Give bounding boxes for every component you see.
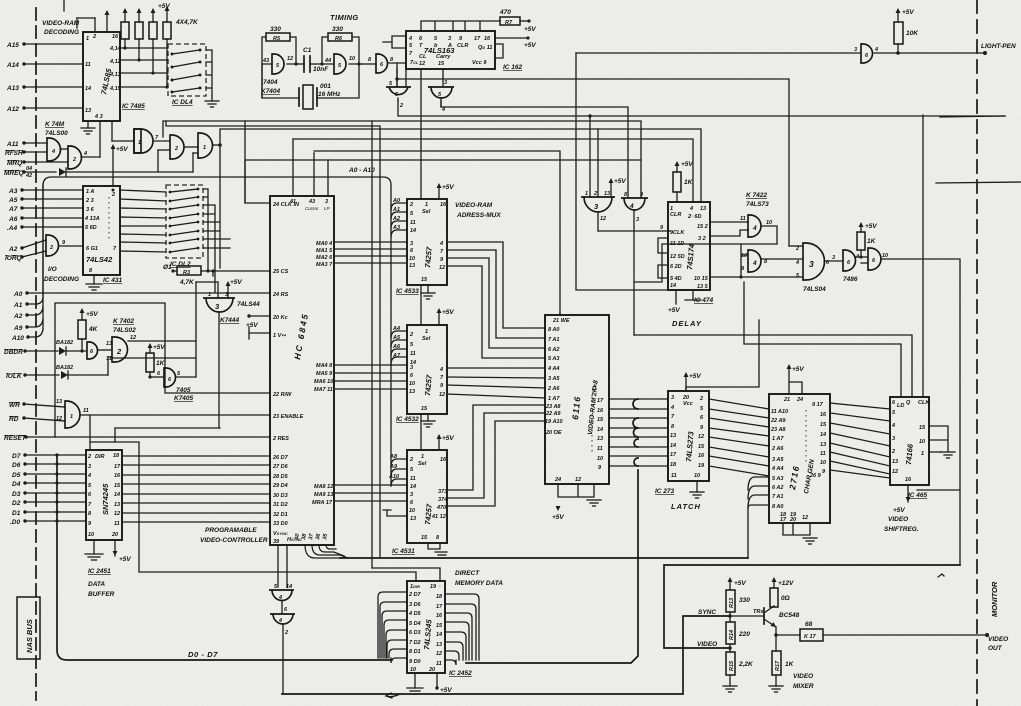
svg-text:14: 14 [85,86,91,92]
svg-text:11 A10: 11 A10 [771,409,788,415]
svg-text:A: A [447,43,452,49]
node RD [9,416,65,423]
svg-text:470: 470 [499,9,511,16]
svg-text:+5V: +5V [86,311,98,318]
ground divider [723,686,737,692]
svg-text:CLK: CLK [918,400,930,406]
svg-text:6 G1: 6 G1 [86,246,98,252]
label video-ram adress-mux [455,202,501,219]
svg-text:7486: 7486 [843,276,858,283]
gate U23a [748,215,772,237]
label data buffer [88,581,115,598]
svg-text:Vcc 9: Vcc 9 [472,60,487,66]
svg-text:24: 24 [796,397,803,403]
svg-text:3 A5: 3 A5 [772,457,784,463]
wire mux3 outputs up to ram [447,405,545,506]
wire dir path [90,415,440,581]
wire U3c out junction [213,143,222,147]
wire shiftreg top pins [634,282,912,397]
svg-text:1K: 1K [867,238,877,245]
counter U5 74LS163 [406,31,495,69]
svg-text:MA9 13: MA9 13 [314,492,333,498]
wire dma right fan to ram bus [445,594,479,665]
svg-text:Carry: Carry [436,54,451,60]
svg-text:2: 2 [111,192,115,198]
gate U11c 7405 [150,368,181,387]
gate U3a nand [134,129,153,153]
label video shiftreg [884,516,919,533]
svg-text:D1: D1 [12,510,21,517]
wire mux1 outputs to ram [447,242,545,358]
svg-text:+5V: +5V [246,322,258,329]
svg-text:4: 4 [439,241,443,247]
svg-text:DECODING: DECODING [44,276,79,283]
svg-text:14: 14 [410,228,416,234]
svg-text:10: 10 [88,532,94,538]
wire shiftreg video wrap [917,489,960,491]
svg-text:74257: 74257 [423,374,434,396]
svg-text:11: 11 [436,661,442,667]
svg-text:C1: C1 [303,47,312,54]
svg-text:SYNC: SYNC [698,609,716,616]
svg-text:40: 40 [294,533,301,541]
node A14 [6,62,83,69]
gate U3c nand [185,133,213,158]
svg-text:4: 4 [87,473,91,479]
svg-text:4: 4 [795,260,799,266]
svg-text:11: 11 [410,476,416,482]
svg-text:+5V: +5V [524,26,536,33]
svg-text:OUT: OUT [988,645,1003,652]
svg-text:2: 2 [87,454,91,460]
wire mux2 outputs to ram [447,368,545,398]
svg-text:4: 4 [629,203,634,210]
capacitor crtc vss [249,327,270,339]
label video mixer [793,673,814,690]
node D0 [10,519,86,526]
wire counter CL down [395,69,421,199]
svg-text:VIDEO-RAM: VIDEO-RAM [42,20,80,27]
svg-text:K 7402: K 7402 [113,318,134,325]
node D1 [12,510,86,517]
buffer U13 SN74245 data buffer [86,450,122,540]
svg-text:3: 3 [854,47,857,53]
svg-text:2: 2 [409,202,413,208]
resistor R15 2,2K [726,652,754,675]
svg-text:VIDEO: VIDEO [988,636,1008,643]
node D6 [12,462,86,469]
svg-text:18: 18 [436,594,443,600]
ram U19 6116 [545,315,609,484]
wire band h129 [220,129,701,268]
svg-text:Q: Q [906,400,911,406]
svg-text:K 17: K 17 [804,634,817,640]
svg-text:3: 3 [410,241,413,247]
label 7405 [174,387,194,402]
svg-text:1: 1 [921,451,924,457]
power +5V rail left [111,144,129,186]
svg-text:21: 21 [783,397,790,403]
wire U25b out right [881,259,960,565]
svg-text:QD 11: QD 11 [478,45,492,51]
resistor R14 220 [726,622,750,644]
svg-text:DATA: DATA [88,581,105,588]
svg-text:12: 12 [114,511,120,517]
mux U17 74LS257 [407,325,447,414]
crystal X1 16MHz [299,83,341,109]
svg-text:13: 13 [410,516,416,522]
buffer U4c [362,54,406,73]
svg-text:A5: A5 [8,197,18,204]
svg-text:04: 04 [26,166,32,172]
label I/O decoding [44,266,79,283]
wire switch outputs bus [203,189,230,292]
power +5V mux2 [437,308,455,325]
svg-text:D4: D4 [12,481,21,488]
wire band h114 [398,101,1005,118]
node A11 [6,141,47,148]
svg-text:10nF: 10nF [313,66,329,73]
svg-text:Sel: Sel [422,336,431,342]
svg-text:+5V: +5V [158,3,170,10]
gate U21b nor [621,192,648,335]
wire delay q4 to gate E [710,275,803,278]
svg-text:2: 2 [409,457,413,463]
svg-text:1 A7: 1 A7 [772,436,784,442]
svg-text:13 5: 13 5 [697,284,709,290]
wire address bus A0-A10 [43,177,391,329]
diode D2 BA182 [56,340,86,355]
svg-text:+5V: +5V [524,42,536,49]
svg-text:BA182: BA182 [56,365,73,371]
svg-text:13: 13 [892,459,898,465]
wire crtc MA8-10 to mux3 [334,485,407,501]
svg-text:24 RS: 24 RS [272,292,289,298]
wire dma left fan from bus [378,592,407,663]
svg-text:2 3: 2 3 [85,198,94,204]
power +5V counter pin16 [495,36,536,49]
svg-text:15: 15 [436,623,443,629]
diode D1 [59,168,193,176]
svg-text:+5V: +5V [865,223,877,230]
svg-text:10: 10 [820,460,826,466]
svg-text:+5V: +5V [153,344,165,351]
svg-text:20: 20 [789,517,796,523]
svg-text:373: 373 [438,489,447,495]
gate U6b nor [428,80,454,113]
inductor L1 68 [800,621,823,641]
wire band verticals gates [372,116,626,568]
power +5V buffer pin20 [113,540,132,563]
svg-text:D5: D5 [12,472,21,479]
svg-text:16: 16 [698,453,705,459]
svg-text:11: 11 [85,62,91,68]
svg-text:2 A6: 2 A6 [771,446,784,452]
wire oscillator loop2 [315,37,362,66]
node RESET [4,435,270,442]
resistor R11 1K delay [673,161,694,202]
svg-text:R3: R3 [183,270,190,276]
svg-text:BUFFER: BUFFER [88,591,115,598]
wire video data bus vertical [633,399,638,466]
svg-text:11: 11 [820,451,826,457]
mux U16 74LS257 [407,199,447,285]
svg-text:7 A1: 7 A1 [548,337,559,343]
svg-text:16: 16 [436,613,443,619]
label D0 - D7 [188,650,218,659]
wire U23b out to U24 [762,258,803,260]
wire crtc clk from left [245,160,270,203]
svg-text:41 12: 41 12 [431,514,446,520]
svg-text:4: 4 [51,149,55,155]
label TIMING [330,13,359,22]
ground decoder pin8 [86,275,102,290]
svg-text:10: 10 [409,256,415,262]
svg-text:+5V: +5V [902,9,914,16]
svg-text:+5V: +5V [116,146,128,153]
svg-text:42: 42 [25,173,32,179]
label DELAY [672,319,702,328]
svg-text:4: 4 [874,47,878,53]
svg-text:3 6: 3 6 [86,207,95,213]
node A2 [8,240,46,253]
bus boundary dashed left [35,8,37,700]
label K7404 [261,79,281,95]
svg-text:11: 11 [410,351,416,357]
ground comparator pin4 [81,121,95,134]
svg-text:15: 15 [114,483,121,489]
node D7 [12,453,86,460]
transistor Q1 BC548 [764,606,800,627]
svg-text:LP: LP [324,206,330,211]
svg-text:4: 4 [278,618,282,624]
svg-text:13: 13 [436,642,442,648]
light pen pullup R8 10K [894,8,919,55]
svg-text:43: 43 [308,199,315,205]
svg-text:SHIFTREG.: SHIFTREG. [884,526,919,533]
label IC 4531 [392,548,415,555]
power +5V chargen [787,364,805,394]
svg-text:10: 10 [882,253,888,259]
svg-text:12 5D: 12 5D [670,254,685,260]
gate U11a 7402 [87,342,98,359]
svg-text:WR: WR [9,402,20,409]
svg-text:330: 330 [739,597,750,604]
svg-text:25 CS: 25 CS [272,269,289,275]
svg-text:13: 13 [85,108,91,114]
node A9 [13,319,43,332]
label IC 431 [103,277,123,284]
ground mux2 [421,414,435,427]
latch U20 74LS273 [668,391,709,481]
wire control rect path [55,303,270,437]
wire mux3 address hops A8-A10 [388,364,407,486]
wire divider chain [728,612,732,686]
svg-text:220: 220 [738,631,750,638]
svg-text:A2: A2 [13,313,23,320]
svg-text:10: 10 [409,381,415,387]
svg-text:2: 2 [399,103,403,109]
svg-text:+5V: +5V [230,279,242,286]
svg-text:+5V: +5V [442,309,454,316]
svg-text:4 13A: 4 13A [84,216,100,222]
svg-text:IC DL4: IC DL4 [172,99,193,106]
wire crtc kc stub [246,314,270,329]
svg-text:A10: A10 [11,335,24,342]
wire sync bottom run [282,609,730,694]
svg-text:18: 18 [113,453,120,459]
resistor R12 1K [857,222,877,259]
svg-text:1K: 1K [684,179,694,186]
svg-text:3 A5: 3 A5 [548,376,560,382]
svg-text:IC 273: IC 273 [655,488,675,495]
svg-text:IC 7485: IC 7485 [122,103,145,110]
svg-text:.D0: .D0 [10,519,21,526]
node A0 [13,291,270,298]
svg-text:·: · [439,584,441,590]
svg-text:16 MHz: 16 MHz [318,91,341,98]
svg-text:4X4,7K: 4X4,7K [175,19,199,26]
svg-text:14: 14 [597,427,603,433]
svg-text:IC 2451: IC 2451 [88,568,111,575]
power +5V ram [552,506,564,521]
fold tick right [936,116,1021,183]
wire band h160 [245,121,641,203]
node MRQ [7,160,68,167]
svg-text:14: 14 [820,432,826,438]
svg-text:9 D0: 9 D0 [409,659,421,665]
svg-text:4: 4 [689,206,693,212]
label K74M 74LS00 [45,121,68,137]
wire band h78 [397,79,789,246]
svg-text:10 15: 10 15 [694,276,709,282]
label IC 4532 [396,416,419,423]
svg-text:20: 20 [111,532,118,538]
svg-text:12: 12 [600,216,606,222]
svg-text:3: 3 [448,36,451,42]
svg-text:19: 19 [698,463,705,469]
svg-text:4: 4 [670,405,674,411]
svg-text:IC DL2: IC DL2 [170,261,191,268]
svg-text:RESET: RESET [4,435,27,442]
svg-text:D6: D6 [12,462,21,469]
svg-text:A12: A12 [6,106,19,113]
svg-text:A2: A2 [8,246,18,253]
svg-text:16: 16 [440,457,447,463]
svg-text:13: 13 [56,399,62,405]
svg-text:74LS02: 74LS02 [113,327,136,334]
resistor R3 4,7K [163,264,270,286]
ground shiftreg right [929,452,955,458]
svg-text:39: 39 [273,539,280,545]
wire U11b out [128,335,196,341]
svg-text:16: 16 [440,202,447,208]
svg-text:4 D5: 4 D5 [408,611,422,617]
svg-text:26 D7: 26 D7 [272,455,289,461]
svg-text:1K: 1K [785,661,795,668]
svg-text:2 D7: 2 D7 [408,592,422,598]
page mark top left [63,0,65,11]
resistor R10 1K [146,343,166,379]
svg-text:3: 3 [636,217,639,223]
svg-text:10: 10 [766,220,772,226]
svg-text:74LS44: 74LS44 [237,301,260,308]
svg-text:20: 20 [428,667,435,673]
svg-text:MREQ: MREQ [4,170,24,177]
svg-text:7404: 7404 [263,79,278,86]
svg-text:K7405: K7405 [174,395,194,402]
svg-text:30 D3: 30 D3 [273,493,288,499]
diode D3 BA182 [56,357,112,379]
svg-text:14: 14 [286,584,292,590]
svg-text:14: 14 [114,492,120,498]
svg-text:13: 13 [409,389,415,395]
svg-text:68: 68 [805,621,813,628]
resistor R16 0ohm collector [770,577,794,607]
svg-text:11: 11 [114,521,120,527]
ground mux3 [428,543,447,558]
svg-text:22 A9: 22 A9 [545,411,561,417]
svg-text:I/O: I/O [48,266,57,273]
svg-text:1: 1 [585,191,588,197]
wire band h121 [163,121,641,198]
svg-text:R17: R17 [775,660,781,671]
svg-text:2: 2 [72,157,76,163]
svg-text:A1: A1 [13,302,23,309]
svg-text:15: 15 [421,535,428,541]
svg-text:D: D [592,386,596,392]
svg-text:14: 14 [410,484,416,490]
svg-text:Sel: Sel [422,209,431,215]
svg-text:MA6 10: MA6 10 [314,379,333,385]
svg-text:11: 11 [83,408,89,414]
wire U2b out to comparator [81,151,100,157]
wire crtc vsync hsync down [278,545,287,587]
svg-text:CL: CL [419,54,427,60]
svg-text:13: 13 [604,191,610,197]
svg-text:TRx: TRx [753,609,764,615]
svg-text:28 D5: 28 D5 [272,474,289,480]
svg-text:5 A3: 5 A3 [772,476,783,482]
resistor R6 330 [328,26,352,42]
gate U7 light pen buffer [854,44,878,63]
svg-text:1: 1 [425,329,428,335]
svg-text:8 D1: 8 D1 [409,649,421,655]
svg-text:R5: R5 [273,36,281,42]
svg-text:3: 3 [444,80,447,86]
svg-text:29 D4: 29 D4 [272,483,288,489]
wire delay bottom pins [668,290,701,314]
svg-text:2: 2 [284,630,288,636]
svg-text:330: 330 [270,26,281,33]
svg-text:15: 15 [421,406,428,412]
LIGHT-PEN label [981,43,1016,50]
decoder U8 74LS42 [83,186,120,275]
svg-text:470: 470 [436,505,446,511]
dip-switch block IC DL2 [166,185,203,258]
svg-text:27 D6: 27 D6 [272,464,289,470]
svg-text:Sel: Sel [418,461,427,467]
svg-text:MRQ: MRQ [7,160,22,167]
resistor R17 1K emitter [772,651,795,686]
svg-text:43: 43 [262,58,269,64]
wire resistors to comparator [120,39,169,89]
svg-text:4: 4 [752,225,757,232]
crtc U14 HD6845 [270,196,334,545]
svg-text:12: 12 [439,265,445,271]
svg-text:MEMORY DATA: MEMORY DATA [455,580,503,587]
ground chargen [783,523,817,544]
